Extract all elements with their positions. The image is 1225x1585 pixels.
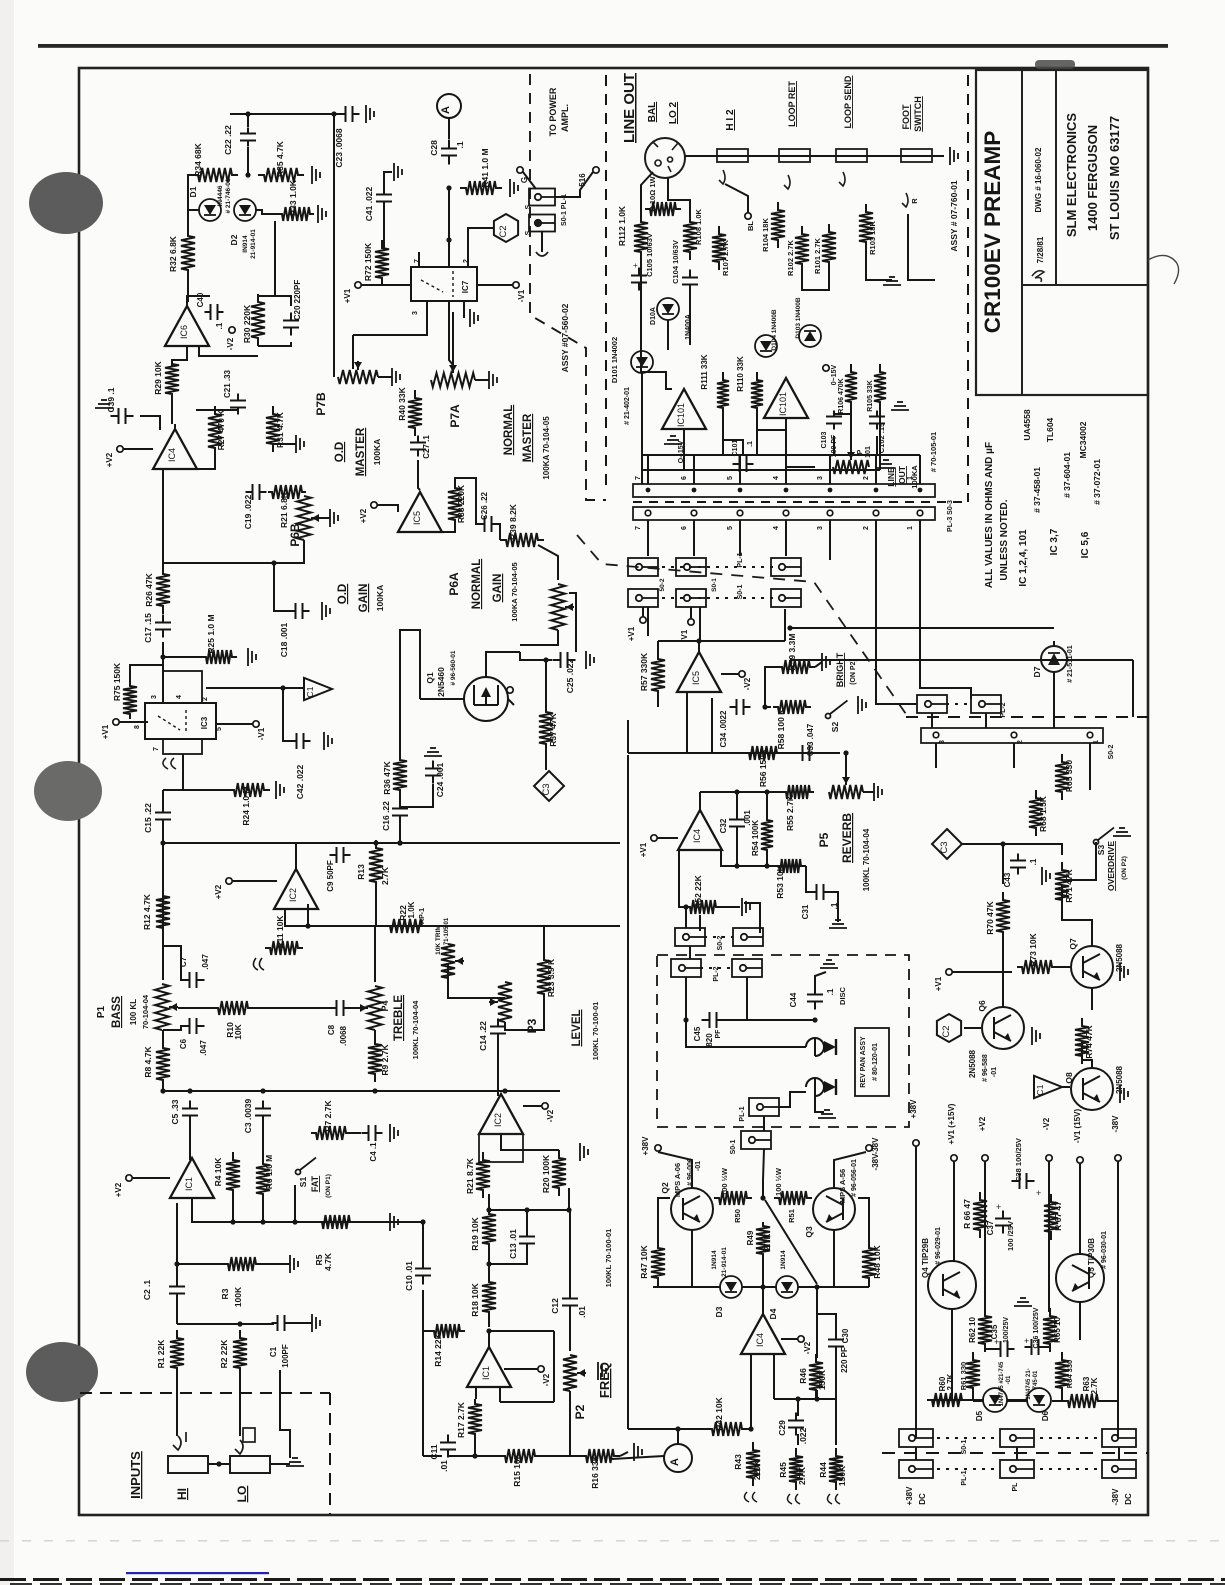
wire strip drop 7 [647,520,649,556]
svg-text:R1 22K: R1 22K [156,1339,166,1369]
diode D103 [799,325,821,347]
resistor R59 3.3M [777,660,815,674]
capacitor C8 .0068 [330,1000,351,1016]
ground gnd IC7 [470,309,478,327]
svg-text:C28: C28 [429,140,439,156]
wire IC7 d2 [449,301,453,365]
capacitor C4 .1 [362,1125,383,1141]
transistor Q5 [1056,1254,1104,1302]
svg-text:R3: R3 [220,1288,230,1299]
svg-text:IC 3,7: IC 3,7 [1049,528,1060,555]
resistor R2 22K [233,1330,247,1376]
ground gnd C25 [586,651,594,669]
wire so1a drop [915,1447,917,1460]
capacitor C29 [788,1413,804,1436]
svg-text:10K TRIM: 10K TRIM [435,925,442,955]
node flag C2 flag top [494,214,518,242]
terminal Q1 d [507,687,513,693]
junction fb [683,904,688,909]
svg-text:C42 .022: C42 .022 [295,764,305,799]
svg-text:PF: PF [715,1029,722,1039]
jack FOOT SWITCH box [901,149,932,162]
wire r70 top [1002,844,1004,884]
wire R25 left [163,656,201,658]
terminal -15V [823,365,829,371]
svg-text:.047: .047 [199,1040,208,1056]
wire fb bus [308,925,620,927]
svg-text:Q8: Q8 [1064,1072,1074,1084]
jack contact 4 [902,193,908,207]
wire c36 link [1043,1344,1050,1347]
wire c29 drop [797,1399,799,1416]
terminal +V2 IC5 [371,502,377,508]
wire c44 up [815,972,826,988]
resistor R21b 8.7K [476,1152,490,1198]
wire IC7 right net [468,228,493,267]
svg-text:D3: D3 [714,1306,724,1317]
svg-text:# 96-588: # 96-588 [982,1054,989,1082]
svg-text:MASTER: MASTER [522,413,534,462]
title block divider h [1022,284,1148,286]
wire fb bottom [500,1401,554,1403]
svg-text:D5: D5 [975,1410,984,1421]
svg-text:R46: R46 [798,1368,808,1384]
resistor R67 47 [1044,1194,1058,1240]
wire c45 to c44 [722,1019,815,1021]
potentiometer P2 pot [563,1355,586,1391]
svg-text:IC6: IC6 [179,325,189,339]
wire fb top [489,1330,554,1332]
wire left drop [188,175,192,232]
resistor R7 2.7K [311,1126,351,1140]
svg-text:# 37-604-01: # 37-604-01 [1062,452,1072,498]
svg-text:C5 .33: C5 .33 [170,1099,180,1124]
svg-text:Q3: Q3 [804,1226,814,1238]
terminal G [517,167,523,173]
resistor R70 47K [996,892,1010,940]
connector XLR line out [645,138,685,178]
svg-text:(ON P2): (ON P2) [850,659,857,685]
title block divider 1 [1021,70,1023,395]
diode D6 [1027,1388,1051,1412]
wire long mid a [829,520,831,560]
svg-text:R107 2.7K: R107 2.7K [721,239,730,275]
svg-text:S3: S3 [1096,845,1106,856]
svg-text:4: 4 [176,695,183,699]
resistor R45 2.7K [789,1448,803,1490]
svg-text:R111 33K: R111 33K [700,354,709,389]
svg-text:R18 10K: R18 10K [470,1282,480,1316]
ground gnd loop [883,277,901,285]
svg-text:R105 33K: R105 33K [867,380,874,412]
svg-text:D104 1N400B: D104 1N400B [771,309,778,350]
svg-text:# 80-120-01: # 80-120-01 [872,1043,879,1081]
wire r57 loop [657,695,659,707]
svg-text:R7 2.7K: R7 2.7K [323,1100,333,1132]
connector SO-1 S [529,215,555,232]
ground gnd R31 [296,435,304,453]
ground gnd r52 [742,898,750,916]
svg-text:6: 6 [681,476,688,480]
svg-text:-38V: -38V [871,1153,880,1171]
resistor R14 22K [429,1324,465,1338]
strip pin top 3 [828,488,833,493]
ground gnd rca2 [818,1110,836,1118]
junction bus1 [373,840,378,845]
ground gnd r16 [634,1443,642,1461]
capacitor C1b 100PF [272,1315,291,1331]
resistor R29 10K [165,360,179,398]
op-amp IC5 [398,492,442,532]
svg-text:C6: C6 [179,1038,188,1049]
wire to rca1 [686,1020,806,1047]
ground gnd R59 [822,653,830,671]
svg-text:R47 10K: R47 10K [639,1244,649,1278]
dashed right lineout [967,75,969,502]
svg-text:H I 2: H I 2 [725,109,736,131]
svg-text:C22 .22: C22 .22 [223,125,233,155]
switch S3 [1094,828,1115,845]
transistor Q1 [464,677,508,721]
svg-text:PL-2: PL-2 [1000,702,1007,717]
svg-text:R103 18K: R103 18K [868,221,877,255]
wire c30 bot [835,1351,837,1399]
svg-text:IC7: IC7 [461,280,470,293]
svg-text:1N914: 1N914 [711,1250,718,1270]
wire strip feed x694 [693,455,695,484]
svg-text:R23 3.9 K: R23 3.9 K [546,958,556,997]
svg-text:516: 516 [578,173,587,187]
resistor R26 47K [156,566,170,614]
wire rca2 lead [779,1092,806,1107]
wire ic4c v [781,1338,798,1340]
svg-text:# 21-746-01: # 21-746-01 [225,178,232,213]
svg-text:5: 5 [216,727,223,731]
svg-text:NORMAL: NORMAL [503,405,515,455]
junction r54 top [764,789,769,794]
svg-text:R36 47K: R36 47K [382,760,392,794]
svg-text:2.7K: 2.7K [946,1373,955,1390]
op-amp IC1b [467,1347,511,1387]
resistor R11 10K [265,941,303,955]
junction misc 423 1222 [420,1219,425,1224]
svg-text:OVERDRIVE: OVERDRIVE [1106,841,1116,891]
wire reverb left vert [627,720,629,753]
svg-text:D103 1N400B: D103 1N400B [795,297,802,338]
capacitor C101 .1 [733,456,754,472]
svg-text:-V1 (15V): -V1 (15V) [1073,1109,1082,1144]
ground gnd c4 [390,1124,398,1142]
svg-text:R45: R45 [778,1462,788,1478]
connector PL-1 psu a [899,1460,933,1478]
resistor R31 4.7K [266,406,280,452]
svg-text:-V1: -V1 [257,727,266,740]
svg-text:R 67 47: R 67 47 [1053,1201,1063,1231]
svg-text:ASSY # 07-760-01: ASSY # 07-760-01 [949,180,959,251]
so2 pin 1 [1087,732,1093,738]
junction meter [675,1426,680,1431]
svg-text:R43: R43 [733,1454,743,1470]
wire IC7 d1 [353,301,427,335]
ground gnd s2 [858,696,866,714]
wire C22 up [247,114,249,127]
wire ic101a out drop [683,430,685,455]
svg-text:R21 8.7K: R21 8.7K [465,1157,475,1194]
wire r105 drop [879,402,881,470]
resistor R36 47K [393,752,407,798]
wire C41 down [382,208,384,248]
svg-text:100KA: 100KA [375,585,385,611]
resistor R30 220K [251,294,265,346]
svg-text:100PF: 100PF [281,1344,290,1368]
wire c14 down [497,1040,499,1096]
junction c34 node [762,704,767,709]
IC3 top tab [163,671,202,703]
dash psu conn3 [937,1468,996,1470]
capacitor C39 [111,408,134,424]
svg-text:+: + [1036,1188,1041,1198]
wire R37 top [545,660,547,708]
wire r21 stub [488,1194,490,1210]
svg-text:TL604: TL604 [1045,417,1055,442]
wire r13 down [375,886,377,926]
capacitor C41 [376,187,392,210]
svg-text:8: 8 [134,725,141,729]
svg-text:# 70-105-01: # 70-105-01 [929,432,938,472]
wire strip feed x920 [919,455,921,484]
svg-text:2: 2 [863,526,870,530]
svg-text:R50: R50 [733,1209,742,1223]
svg-text:UNLESS NOTED.: UNLESS NOTED. [999,499,1010,580]
wire r73 q7 [1052,966,1070,968]
wire c13 up [526,1210,528,1230]
potentiometer P101 [833,451,869,474]
wire rail +38V [915,1146,917,1205]
wire fb right [553,1331,555,1402]
svg-text:OUT: OUT [897,465,907,484]
capacitor C104 10/63V [682,270,698,293]
svg-text:Q6: Q6 [977,1000,987,1012]
junction r2 top [237,1321,242,1326]
dashed box rev pan [657,955,909,1127]
svg-text:2: 2 [202,697,209,701]
svg-text:.01: .01 [439,1460,449,1472]
capacitor C12 [562,1291,578,1314]
svg-text:R8 4.7K: R8 4.7K [143,1046,153,1078]
terminal +V1 IC4b [651,835,657,841]
svg-text:FOOT: FOOT [901,104,911,129]
junction r9 bus [372,1088,377,1093]
node flag C2 flag right [937,1014,961,1042]
resistor R19 10K [482,1209,496,1249]
wire s3 down [1062,842,1096,880]
wire lo5 [684,429,703,470]
svg-text:2.7K: 2.7K [797,1466,807,1485]
junction misc 163 1091 [160,1088,165,1093]
svg-text:-38V: -38V [1111,1115,1120,1133]
hook mark [536,252,548,256]
switch S1 [296,1158,317,1175]
terminal rail +V2 [982,1155,988,1161]
svg-text:R38 220K: R38 220K [456,484,466,523]
transistor Q3 [813,1188,855,1230]
svg-text:R59 3.3M: R59 3.3M [787,634,797,671]
svg-text:+V2: +V2 [214,884,223,899]
connector PL-2 a [628,558,658,576]
svg-text:Q1: Q1 [425,672,435,684]
svg-text:R64 330: R64 330 [1065,1360,1074,1388]
svg-text:NORMAL: NORMAL [471,559,483,609]
binder blob 3 [26,1342,98,1402]
strip pin bot 2 [873,510,879,516]
wire psu v6 [1117,1205,1119,1438]
svg-text:R32 6.8K: R32 6.8K [168,235,178,272]
ground gnd c1b [312,1314,320,1332]
resistor R46 150K [809,1354,823,1398]
wire c10 down [422,1290,424,1456]
bottom blue mark [126,1572,269,1574]
wire Q1 drain [486,652,520,677]
svg-text:1400 FERGUSON: 1400 FERGUSON [1085,125,1100,231]
svg-text:DISC: DISC [838,986,847,1005]
junction row r20 [566,1207,571,1212]
terminal rail -38V [1115,1155,1121,1161]
junction ic5b apex [696,638,701,643]
connector PL-2 b [676,558,706,576]
wire so2a up2 [699,915,701,931]
resistor R42 10K [706,1422,748,1436]
svg-text:+V1: +V1 [343,288,352,303]
wire Q1 s [508,699,514,705]
resistor R103 18K [859,204,873,250]
top faint dust [1035,60,1075,69]
svg-text:+V2: +V2 [359,508,368,523]
D7 circle [1041,646,1067,672]
wire q2 emitter [691,1230,693,1287]
svg-text:+V1 (+15V): +V1 (+15V) [947,1103,956,1144]
diode D104 [755,335,777,357]
wire strip feed x876 [875,455,877,484]
wire so2 drop1 [935,743,937,768]
wire d6 mid [1007,1400,1028,1402]
svg-text:820: 820 [705,1033,714,1047]
svg-text:C1: C1 [305,686,315,697]
svg-text:R73 10K: R73 10K [1028,932,1038,966]
svg-text:PL-1: PL-1 [739,1106,746,1121]
ground gnd fat [390,1213,398,1231]
capacitor C7 .047 [182,972,205,988]
op-amp IC101a [662,389,706,429]
wire top bus drop [333,114,335,377]
wire phase diag [765,1200,817,1284]
wire r24 bus [163,789,228,791]
capacitor C28 [441,140,457,165]
wire r7 c4 [351,1132,361,1134]
svg-text:100KL 70-104-04: 100KL 70-104-04 [411,1000,420,1059]
resistor R61 330 [966,1352,980,1396]
svg-text:D7: D7 [1032,666,1042,677]
svg-text:# 71-105-01: # 71-105-01 [444,917,450,950]
node meter A bottom [664,1444,692,1472]
terminal +V2 IC4 [117,446,123,452]
svg-text:R57 330K: R57 330K [639,652,649,691]
resistor R101 2.7K [822,224,836,270]
terminal +V1 IC7 [355,282,361,288]
resistor R12 4.7K [156,888,170,936]
wire r10 to c8 [253,1007,330,1009]
resistor R22 1.0K [384,919,428,933]
svg-text:R110 33K: R110 33K [736,356,745,392]
wire c32 down [736,833,738,866]
svg-text:P6A: P6A [447,572,461,596]
ground gnd q8 [1120,1085,1128,1103]
ic2b fb box [479,1134,523,1162]
wire loop send net [802,266,829,290]
ground gnd R35 [312,166,320,184]
wire r5 gnd lead [262,1263,290,1265]
ground gnd s3 [1113,828,1131,836]
svg-text:LOOP SEND: LOOP SEND [843,75,853,128]
svg-text:C16 .22: C16 .22 [381,801,391,831]
D7 triangle [1048,653,1060,665]
wire pin5 drop [739,520,741,556]
IC7 inner detail [421,271,453,297]
wire c103 drop [833,436,835,455]
wire jack bus [208,1463,230,1465]
ground gnd jack chain [950,147,958,165]
wire d6 r63 [1052,1400,1063,1402]
svg-text:IC5: IC5 [412,511,422,525]
wire R32 to IC6 [187,278,189,302]
dashed separator lineout left [605,75,607,485]
dashed input box right [329,1393,331,1514]
svg-text:2: 2 [863,476,870,480]
connector SO-2 rev a [675,928,705,946]
IC IC3 switch box [145,703,216,739]
strip pin top 1 [918,488,923,493]
wire P6A bot [520,630,558,645]
junction IC7 in [446,237,451,242]
connector PL-1 psu c [1102,1460,1136,1478]
potentiometer P1 pot [155,984,178,1030]
wire input bus [177,1323,274,1325]
svg-text:R56 150K: R56 150K [758,748,768,787]
wire lineout h1 [641,454,920,456]
strip pin top 6 [692,488,697,493]
wire c35 link [985,1344,996,1349]
svg-text:4: 4 [773,476,780,480]
wire R30 C20 top [258,296,291,306]
svg-text:6: 6 [681,526,688,530]
strip pin bot 5 [737,510,743,516]
svg-text:S0-1 PL-1: S0-1 PL-1 [561,194,568,226]
svg-text:-01: -01 [695,1161,702,1171]
svg-text:R16 33K: R16 33K [590,1454,600,1488]
svg-text:C12: C12 [550,1298,560,1314]
strip pin bot 1 [917,510,923,516]
wire v1 ic4b [657,837,678,839]
svg-text:R71 47K: R71 47K [1064,868,1074,902]
wire ic5b v [721,673,739,675]
resistor R21 6.8K [268,485,306,499]
wire strip feed x830 [829,455,831,484]
wire jack chain [685,155,944,157]
wire fb drop [685,907,687,928]
svg-text:IN4446: IN4446 [217,185,224,206]
wire r61 drop [972,1388,974,1401]
svg-text:C104 10/63V: C104 10/63V [671,240,680,284]
resistor R24 1.0M [228,783,270,797]
